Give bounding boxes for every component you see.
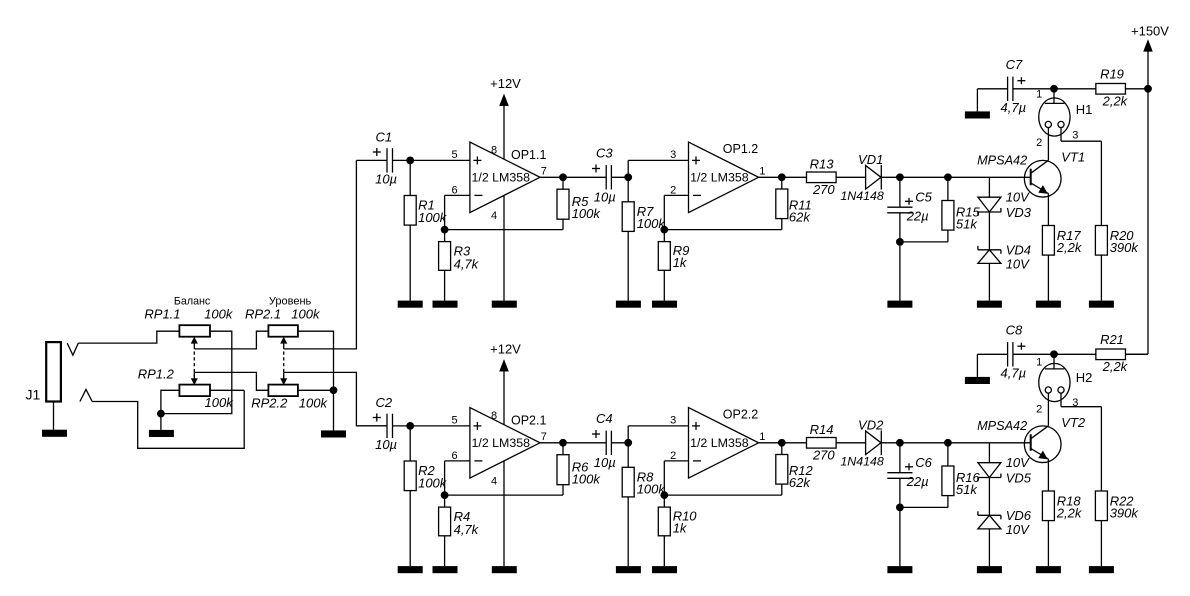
svg-text:8: 8: [491, 145, 497, 157]
svg-text:100k: 100k: [291, 307, 321, 322]
svg-text:1N4148: 1N4148: [840, 189, 884, 203]
svg-text:10µ: 10µ: [594, 190, 616, 205]
svg-text:8: 8: [491, 410, 497, 422]
svg-text:RP1.1: RP1.1: [144, 307, 180, 322]
svg-text:1: 1: [759, 431, 765, 443]
svg-text:6: 6: [452, 185, 458, 197]
svg-text:OP1.2: OP1.2: [723, 142, 758, 156]
svg-text:2,2k: 2,2k: [1102, 93, 1129, 108]
svg-text:51k: 51k: [956, 482, 978, 497]
svg-text:100k: 100k: [572, 206, 602, 221]
svg-text:VD5: VD5: [1006, 470, 1032, 485]
svg-text:7: 7: [541, 431, 547, 443]
svg-text:2: 2: [670, 450, 676, 462]
svg-text:C5: C5: [915, 190, 932, 205]
svg-text:C7: C7: [1006, 57, 1023, 72]
svg-text:1: 1: [1036, 356, 1042, 368]
svg-text:VT2: VT2: [1061, 415, 1086, 430]
svg-text:1k: 1k: [673, 521, 688, 536]
svg-text:62k: 62k: [789, 475, 811, 490]
svg-text:7: 7: [541, 166, 547, 178]
svg-text:C6: C6: [915, 455, 932, 470]
svg-text:R14: R14: [810, 422, 834, 437]
svg-text:1: 1: [1036, 88, 1042, 100]
svg-text:1k: 1k: [673, 255, 688, 270]
svg-text:1N4148: 1N4148: [840, 455, 884, 469]
svg-text:H1: H1: [1076, 102, 1093, 117]
svg-text:10V: 10V: [1006, 190, 1030, 205]
svg-text:1/2 LM358: 1/2 LM358: [472, 171, 531, 185]
svg-text:VD6: VD6: [1006, 508, 1032, 523]
svg-text:J1: J1: [26, 386, 41, 402]
svg-text:10V: 10V: [1006, 257, 1030, 272]
svg-text:4,7k: 4,7k: [454, 256, 480, 271]
svg-text:100k: 100k: [418, 210, 448, 225]
svg-text:22µ: 22µ: [906, 208, 929, 223]
svg-text:MPSA42: MPSA42: [977, 154, 1027, 168]
svg-text:100k: 100k: [418, 475, 448, 490]
svg-text:2: 2: [1036, 137, 1042, 149]
svg-text:10µ: 10µ: [594, 455, 616, 470]
svg-text:6: 6: [452, 450, 458, 462]
svg-text:Баланс: Баланс: [174, 295, 211, 307]
svg-text:10V: 10V: [1006, 522, 1030, 537]
svg-text:VT1: VT1: [1061, 149, 1085, 164]
svg-text:OP2.2: OP2.2: [723, 407, 758, 421]
svg-text:2,2k: 2,2k: [1102, 359, 1129, 374]
svg-text:1: 1: [759, 166, 765, 178]
svg-text:RP2.1: RP2.1: [245, 307, 281, 322]
svg-text:R13: R13: [810, 157, 835, 172]
svg-text:2,2k: 2,2k: [1056, 240, 1083, 255]
svg-text:100k: 100k: [205, 395, 235, 410]
svg-text:4,7k: 4,7k: [454, 522, 480, 537]
svg-text:VD1: VD1: [858, 152, 883, 167]
svg-text:3: 3: [670, 414, 676, 426]
svg-text:RP1.2: RP1.2: [138, 366, 175, 381]
svg-text:62k: 62k: [789, 209, 811, 224]
svg-text:VD3: VD3: [1006, 205, 1032, 220]
svg-text:2: 2: [670, 185, 676, 197]
svg-text:RP2.2: RP2.2: [251, 395, 288, 410]
svg-text:OP1.1: OP1.1: [511, 148, 546, 162]
svg-text:10µ: 10µ: [375, 437, 397, 452]
svg-text:1/2 LM358: 1/2 LM358: [690, 436, 749, 450]
svg-text:270: 270: [812, 182, 835, 197]
svg-text:5: 5: [452, 149, 458, 161]
svg-text:4,7µ: 4,7µ: [1001, 100, 1027, 115]
svg-text:4,7µ: 4,7µ: [1001, 365, 1027, 380]
svg-text:4: 4: [491, 210, 497, 222]
svg-text:390k: 390k: [1110, 240, 1140, 255]
svg-text:H2: H2: [1076, 370, 1093, 385]
svg-text:R19: R19: [1100, 66, 1124, 81]
svg-text:270: 270: [812, 448, 835, 463]
svg-text:2,2k: 2,2k: [1056, 506, 1083, 521]
svg-text:3: 3: [1072, 129, 1078, 141]
svg-text:+12V: +12V: [490, 76, 521, 91]
svg-text:2: 2: [1036, 404, 1042, 416]
svg-text:3: 3: [670, 149, 676, 161]
svg-text:C3: C3: [596, 145, 613, 160]
svg-text:4: 4: [491, 476, 497, 488]
svg-text:MPSA42: MPSA42: [977, 419, 1027, 433]
svg-text:R21: R21: [1100, 332, 1124, 347]
svg-text:5: 5: [452, 414, 458, 426]
svg-text:51k: 51k: [956, 217, 978, 232]
svg-text:100k: 100k: [204, 307, 234, 322]
svg-text:+12V: +12V: [490, 341, 521, 356]
svg-text:C4: C4: [596, 411, 613, 426]
svg-text:390k: 390k: [1110, 506, 1140, 521]
svg-text:VD2: VD2: [858, 417, 884, 432]
svg-text:10V: 10V: [1006, 455, 1030, 470]
svg-text:22µ: 22µ: [906, 474, 929, 489]
svg-text:1/2 LM358: 1/2 LM358: [690, 171, 749, 185]
svg-text:C8: C8: [1006, 323, 1023, 338]
svg-text:Уровень: Уровень: [269, 295, 312, 307]
svg-text:3: 3: [1072, 397, 1078, 409]
svg-text:1/2 LM358: 1/2 LM358: [472, 436, 531, 450]
svg-text:+150V: +150V: [1131, 23, 1169, 38]
svg-text:100k: 100k: [572, 472, 602, 487]
svg-text:OP2.1: OP2.1: [511, 414, 546, 428]
svg-text:100k: 100k: [299, 395, 329, 410]
svg-text:10µ: 10µ: [375, 171, 397, 186]
svg-text:C2: C2: [376, 395, 393, 410]
svg-text:VD4: VD4: [1006, 242, 1031, 257]
svg-text:C1: C1: [376, 129, 393, 144]
